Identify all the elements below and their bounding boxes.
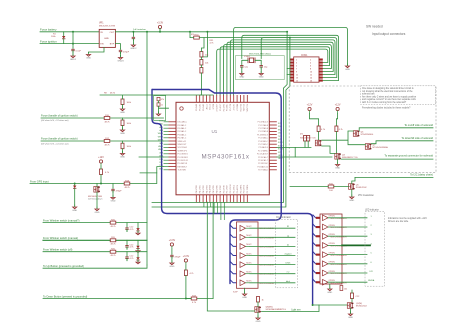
- svg-text:DVcc2: DVcc2: [210, 104, 212, 110]
- svg-text:SI3443BDV T1G: SI3443BDV T1G: [300, 138, 316, 140]
- svg-text:1n: 1n: [161, 104, 163, 106]
- resistor R24 below IC4: [340, 286, 347, 291]
- svg-text:LED indicator: LED indicator: [365, 209, 379, 212]
- svg-text:P2.2/CAOUT: P2.2/CAOUT: [257, 153, 269, 156]
- svg-text:Vcc3: Vcc3: [159, 120, 163, 122]
- wire BYP pin to C3: [115, 44, 120, 57]
- pin pad IC4 input 2: [316, 226, 320, 228]
- capacitor C1 0.1uF input: [71, 48, 81, 54]
- transistor Q6 STS4DNF60L: [353, 131, 374, 137]
- wire buffer IC4b output: [328, 226, 367, 228]
- svg-text:IC6P: IC6P: [233, 292, 238, 294]
- svg-text:GND: GND: [111, 201, 116, 203]
- label To Down Button: [43, 294, 87, 298]
- wire buffer IC3c output: [250, 245, 275, 247]
- wire crystal left leg: [242, 60, 248, 64]
- svg-text:VeREF-/P5: VeREF-/P5: [178, 150, 187, 152]
- label To on/off side of solenoid: [404, 123, 433, 127]
- svg-text:P3.7/URX: P3.7/URX: [247, 184, 249, 193]
- op-amp buffer IC4c: [323, 233, 348, 239]
- ground solenoid drivers: [337, 159, 339, 163]
- wire buffer IC3e output: [250, 264, 275, 266]
- svg-text:SW needed: SW needed: [366, 25, 383, 29]
- svg-text:GND: GND: [256, 321, 261, 323]
- svg-text:XT2OU: XT2OU: [234, 103, 236, 110]
- label right pin nets: [278, 123, 284, 160]
- svg-text:74LVC: 74LVC: [246, 281, 252, 283]
- wire Q2 stubs: [96, 184, 98, 209]
- svg-text:P6.7/A7-C: P6.7/A7-C: [178, 137, 187, 140]
- svg-text:U1: U1: [212, 129, 218, 134]
- junction C2: [132, 31, 134, 33]
- label crystal section: [249, 54, 271, 56]
- svg-text:Light sen: Light sen: [291, 308, 301, 311]
- pin labels U1 right: [257, 121, 269, 172]
- svg-text:P6.4/A4-C: P6.4/A4-C: [178, 127, 187, 130]
- op-amp buffer IC3f: [240, 271, 275, 277]
- note 25V breakdown: [358, 194, 375, 197]
- svg-text:dbck: dbck: [286, 281, 290, 283]
- svg-text:P5.5/SM: P5.5/SM: [223, 104, 225, 112]
- svg-text:10: 10: [310, 71, 312, 73]
- wire I2C net: [355, 176, 433, 178]
- diode D1 reverse protection: [62, 36, 65, 39]
- svg-text:0.1uF: 0.1uF: [76, 50, 82, 52]
- svg-text:P5.3/UCLK1: P5.3/UCLK1: [178, 160, 189, 162]
- svg-text:GND3: GND3: [117, 61, 124, 63]
- svg-text:74LVC2GU04DBVR: 74LVC2GU04DBVR: [330, 236, 348, 238]
- pin pad IC4 input 7: [316, 272, 320, 274]
- wire light sen net: [262, 305, 320, 312]
- svg-text:From Whisker switch (manual?): From Whisker switch (manual?): [43, 218, 80, 222]
- svg-text:TMS/TCK: TMS/TCK: [247, 103, 249, 112]
- wire omni net IR: [275, 227, 295, 229]
- svg-text:P5.4/MCLK: P5.4/MCLK: [178, 163, 188, 165]
- op-amp buffer IC4e: [323, 252, 348, 258]
- wire bus net N3: [261, 38, 337, 78]
- junction R30: [189, 31, 191, 33]
- wire VR1 GND pin down: [89, 47, 105, 53]
- label IC3 name: [233, 292, 238, 294]
- svg-text:GND: GND: [239, 77, 244, 79]
- svg-text:Force ignition: Force ignition: [40, 39, 57, 43]
- svg-text:74LVC2GU04DBVR: 74LVC2GU04DBVR: [330, 255, 348, 257]
- svg-text:P3.0/STE: P3.0/STE: [223, 184, 225, 193]
- svg-text:GND: GND: [327, 292, 332, 294]
- svg-text:16: 16: [310, 80, 312, 82]
- wire chip signal to light transistor: [207, 202, 252, 311]
- svg-text:74LVC2GU04DBVR: 74LVC2GU04DBVR: [330, 218, 348, 220]
- wire +12V branch y37: [199, 37, 290, 39]
- svg-text:+3.3V: +3.3V: [157, 21, 164, 24]
- pin pad IC4 input 5: [316, 254, 320, 256]
- pin labels U1 bottom: [196, 184, 249, 193]
- resistor R12: [104, 138, 110, 147]
- svg-text:BYP: BYP: [110, 44, 115, 46]
- op-amp buffer IC4d: [323, 243, 348, 249]
- svg-text:P1.3/TA2-B: P1.3/TA2-B: [258, 130, 268, 133]
- svg-text:P3.4/UTX: P3.4/UTX: [237, 184, 239, 193]
- svg-text:P5.7/TB: P5.7/TB: [230, 103, 232, 111]
- wire whisker cap stubs 2: [126, 240, 128, 249]
- resistor R17 pullup: [100, 169, 103, 175]
- wire R11 stubs: [122, 118, 124, 129]
- capacitor C5 12pF right: [260, 64, 269, 70]
- svg-text:4: 4: [310, 62, 311, 64]
- svg-text:DVcc/AVcc: DVcc/AVcc: [178, 121, 187, 124]
- svg-text:5: 5: [296, 65, 297, 67]
- wire solenoid output downhill: [371, 141, 433, 144]
- wire down button net: [43, 298, 213, 300]
- svg-text:IRLML2502: IRLML2502: [356, 306, 368, 308]
- wire rail B 12V vertical right: [152, 38, 290, 207]
- resistor R23 Q9 pullup: [351, 293, 354, 299]
- svg-text:P3.2/SOM: P3.2/SOM: [230, 184, 232, 193]
- svg-text:VREF+/XI: VREF+/XI: [178, 141, 187, 143]
- svg-text:P1.4/SMCLK: P1.4/SMCLK: [257, 134, 269, 136]
- pin row U1 right pins: [269, 122, 277, 170]
- wire C2 stubs: [132, 32, 134, 44]
- ground bus N1: [345, 63, 350, 71]
- label whisker 2: [43, 236, 78, 240]
- wire buffer IC4a output: [328, 217, 367, 219]
- wire bus net N5: [227, 42, 333, 95]
- svg-text:GND: GND: [259, 77, 264, 79]
- junction rail B top: [289, 37, 291, 39]
- svg-text:47k: 47k: [300, 134, 303, 136]
- svg-text:+3.3V: +3.3V: [169, 239, 176, 242]
- ground buffer IC3: [244, 288, 246, 293]
- wire C5 down: [260, 67, 262, 73]
- wire bus net N7: [220, 47, 330, 95]
- wire VR1 output 3.3V rail to rail A: [115, 31, 287, 33]
- label LED net 1: [370, 216, 372, 218]
- label To downhill side of solenoid: [401, 136, 433, 140]
- ground C6: [111, 195, 116, 203]
- wire buffer IC3f output: [250, 273, 275, 275]
- wire omni net rsv: [275, 273, 295, 275]
- svg-text:solenoid are.: solenoid are.: [362, 93, 376, 96]
- svg-text:P1.5/TA0-C: P1.5/TA0-C: [258, 137, 268, 140]
- svg-text:SOL2: SOL2: [278, 145, 283, 147]
- wire buffer IC4h output: [328, 281, 367, 283]
- svg-text:P2.3/CA0-T: P2.3/CA0-T: [258, 156, 269, 159]
- svg-text:Force (handle of ignition swit: Force (handle of ignition switch): [41, 137, 78, 141]
- svg-text:not knowing what the electrica: not knowing what the electrical connecti…: [362, 90, 413, 93]
- transistor Q4 SI3443BDV: [315, 140, 321, 146]
- wire whisker cap stubs 3: [126, 252, 128, 261]
- junction +3.3V node: [159, 31, 161, 33]
- power +3.3V cluster2: [183, 255, 190, 265]
- ground Q5: [351, 189, 353, 196]
- junction rail A top: [286, 31, 288, 33]
- resistor R1 label: [51, 34, 57, 39]
- svg-text:13: 13: [296, 77, 298, 79]
- resistor R19 down button: [191, 295, 197, 304]
- svg-text:P5.6/AC: P5.6/AC: [226, 103, 229, 111]
- svg-text:From Whisker switch (manual): From Whisker switch (manual): [43, 236, 78, 240]
- wire C1 stubs: [72, 32, 74, 55]
- svg-text:10k: 10k: [344, 289, 347, 291]
- diode whisker 2: [136, 246, 139, 249]
- ground C4 GND4: [239, 71, 244, 79]
- wire C13 stubs: [171, 249, 173, 262]
- svg-text:P2.1/TAINC: P2.1/TAINC: [258, 149, 269, 152]
- ground C5 GND5: [259, 71, 264, 79]
- diode whisker 3: [136, 257, 139, 260]
- resistor R22 Q8 gate: [257, 297, 260, 303]
- capacitor C3 470pF bypass: [119, 49, 130, 55]
- wire bus net N1: [234, 27, 348, 95]
- frame crystal section box: [236, 56, 285, 80]
- wire handle2 net: [41, 140, 164, 142]
- svg-text:74LVC: 74LVC: [246, 235, 252, 237]
- ground reset block: [156, 111, 160, 115]
- svg-text:L/R: L/R: [369, 271, 373, 273]
- connector CON1 JTAG header: [290, 55, 323, 83]
- wire rail A 3.3V vertical right: [152, 32, 287, 203]
- resistor R18 GPS series: [124, 180, 130, 189]
- wire long 3.3V feed down left: [146, 32, 148, 265]
- pin row U1 top pins: [196, 95, 247, 102]
- svg-text:470pF: 470pF: [116, 190, 123, 192]
- wire solenoid output ground: [341, 158, 433, 160]
- ground buffer IC4: [329, 284, 331, 288]
- resistor R16 divider: [121, 143, 124, 149]
- svg-text:MSP430F161x: MSP430F161x: [202, 154, 250, 161]
- label Force handle input 2: [41, 137, 78, 141]
- op-amp buffer IC4a: [323, 215, 348, 221]
- svg-text:GND: GND: [95, 212, 100, 214]
- ground R16: [120, 151, 125, 159]
- resistor R14 gate pullup: [335, 126, 338, 132]
- pin row U1 bottom pins: [196, 195, 247, 202]
- wire +12V distribution in box: [310, 114, 338, 127]
- junction GPS pullup: [100, 183, 102, 185]
- wire aux net to jog: [140, 172, 157, 174]
- wire buffer IC3d output: [250, 255, 275, 257]
- resistor R11 divider: [121, 120, 124, 126]
- resistor R20 48.7k: [110, 219, 116, 228]
- wire bus top loop: [152, 90, 281, 284]
- svg-text:GND: GND: [348, 317, 353, 319]
- svg-text:6: 6: [310, 65, 311, 67]
- wire bus net N8: [217, 49, 328, 95]
- capacitor C4 12pF left: [240, 64, 249, 70]
- svg-text:GND/A: GND/A: [368, 279, 375, 282]
- svg-text:74LVC2GU04DBVR: 74LVC2GU04DBVR: [330, 227, 348, 229]
- label whisker 1: [43, 218, 80, 222]
- label LED net 4: [370, 243, 372, 245]
- power +12V pullup symbol: [98, 156, 104, 166]
- wire whisker net 1: [43, 222, 147, 224]
- capacitor whisker filter 2: [125, 244, 128, 250]
- junction R21: [185, 298, 187, 300]
- wire C6 stubs: [112, 184, 114, 197]
- ground C1 GND1: [70, 53, 77, 61]
- svg-text:Force (handle of ignition swit: Force (handle of ignition switch): [41, 113, 78, 117]
- wire R16 stubs: [122, 141, 124, 153]
- crystal XTAL1: [244, 55, 255, 63]
- wire Q5 drain to I2C: [352, 177, 355, 183]
- svg-text:AVcc1: AVcc1: [205, 104, 208, 109]
- junction C1: [72, 31, 74, 33]
- wire D2 stubs: [74, 184, 76, 207]
- ground whisker 1: [136, 231, 140, 235]
- wire omni net LED1: [275, 264, 295, 266]
- wire omni net up: [275, 236, 295, 238]
- svg-text:From GPS input: From GPS input: [30, 179, 49, 183]
- wire CON1 left pads to rails: [287, 69, 290, 75]
- svg-text:+12V: +12V: [98, 156, 104, 159]
- svg-text:P3.6/UTX: P3.6/UTX: [244, 184, 246, 193]
- svg-text:STS4DNF60L: STS4DNF60L: [361, 134, 375, 136]
- op-amp buffer array IC4 box: [320, 214, 342, 284]
- wire XIN stub: [241, 56, 243, 59]
- capacitor whisker filter 1: [125, 226, 128, 232]
- svg-text:+12V: +12V: [335, 103, 341, 106]
- transistor Q7 NTJD4105: [365, 144, 388, 150]
- svg-text:XTAL1: XTAL1: [244, 55, 251, 58]
- svg-text:P3.5/URX: P3.5/URX: [240, 184, 242, 193]
- svg-text:P6.5/A5-C: P6.5/A5-C: [178, 130, 187, 133]
- svg-text:P1.7/TA2-C: P1.7/TA2-C: [258, 143, 268, 146]
- label Light sen: [291, 308, 301, 311]
- capacitor C2 1uF output: [132, 36, 135, 42]
- junction divider: [206, 31, 208, 33]
- svg-text:SI3443BDV T1G: SI3443BDV T1G: [342, 157, 358, 159]
- svg-text:P4.5/TB5: P4.5/TB5: [213, 185, 215, 193]
- svg-text:P2.6/ADC12: P2.6/ADC12: [257, 165, 268, 168]
- wire GPS net: [30, 167, 164, 184]
- note solenoid design text block: [362, 87, 417, 110]
- pin pad IC4 input 4: [316, 244, 320, 246]
- power +3.3V symbol main: [157, 21, 164, 31]
- wire buffer IC4f output: [328, 263, 367, 265]
- wire R30 left to battery net: [190, 32, 194, 38]
- svg-text:+3.3V: +3.3V: [183, 255, 190, 258]
- node Force battery label: [40, 28, 57, 32]
- svg-text:74LVC2GU04DBVR: 74LVC2GU04DBVR: [330, 282, 348, 284]
- wire Force ignition net: [40, 43, 99, 45]
- wire buffer IC4g output: [328, 272, 367, 274]
- label left pin nets: [158, 120, 164, 170]
- ground C3 GND3: [117, 55, 124, 63]
- power +3.3V bottom cluster: [169, 239, 176, 249]
- svg-text:RST/NMI-T: RST/NMI-T: [178, 166, 188, 168]
- svg-text:15: 15: [296, 80, 298, 82]
- note SW needed: [366, 25, 383, 29]
- svg-text:14: 14: [310, 77, 312, 79]
- svg-text:GND: GND: [349, 200, 354, 202]
- svg-text:GND1: GND1: [70, 59, 77, 61]
- wire up button net: [43, 265, 147, 268]
- svg-text:P4.0/TB0: P4.0/TB0: [196, 185, 198, 193]
- svg-text:P2.4/CA1-T: P2.4/CA1-T: [258, 159, 269, 162]
- resistor R15 Q5 gate: [328, 183, 334, 192]
- frame LED indicator dashed box: [365, 212, 385, 287]
- svg-text:P5.1/SIMO1: P5.1/SIMO1: [178, 154, 188, 156]
- ground C13: [169, 260, 174, 268]
- svg-text:(0V when hi N, +12 when out): (0V when hi N, +12 when out): [41, 119, 69, 122]
- svg-text:Are there only 2 wires and we: Are there only 2 wires and we have to su…: [362, 95, 417, 98]
- pin pad IC4 input 3: [316, 235, 320, 237]
- svg-text:P2.7/TA0-D: P2.7/TA0-D: [258, 169, 268, 172]
- svg-text:9: 9: [296, 71, 297, 73]
- op-amp buffer IC4b: [323, 224, 348, 230]
- svg-text:Omni indicator: Omni indicator: [276, 216, 291, 219]
- svg-text:LED1: LED1: [285, 263, 291, 265]
- resistor R27 divider b: [307, 136, 310, 142]
- label LED net L/R: [369, 271, 373, 273]
- svg-text:8: 8: [310, 68, 311, 70]
- svg-text:1: 1: [296, 59, 297, 61]
- svg-text:TDO/TDI: TDO/TDI: [240, 104, 242, 112]
- label LED net 6: [370, 262, 372, 264]
- label LED net 5: [370, 253, 372, 255]
- op-amp buffer IC3b: [240, 235, 275, 241]
- svg-text:74LVC2GU04DBVR: 74LVC2GU04DBVR: [330, 273, 348, 275]
- label C2 1uF tantalum: [133, 28, 146, 31]
- pin pad IC4 input 1: [316, 217, 320, 219]
- svg-text:To Up Button (pressed is groun: To Up Button (pressed is grounded): [43, 264, 84, 268]
- resistor R31 label: [210, 40, 215, 45]
- svg-text:Force battery: Force battery: [40, 28, 57, 32]
- pin pad IC4 input 6: [316, 263, 320, 265]
- svg-text:P6.3/A3-C: P6.3/A3-C: [178, 124, 187, 127]
- svg-text:rsv: rsv: [287, 272, 290, 274]
- svg-text:P6.2/A2: P6.2/A2: [202, 104, 205, 111]
- op-amp buffer IC3d: [240, 253, 275, 259]
- label LED net GND/A: [368, 279, 375, 282]
- junction bus end light: [312, 304, 314, 306]
- svg-text:dn: dn: [287, 244, 289, 246]
- voltage regulator VR1 MIC5209-3.3YM: [99, 29, 115, 47]
- op-amp U1 MSP430F161x MCU body: [176, 102, 269, 195]
- svg-text:1uF tantalum: 1uF tantalum: [133, 28, 146, 31]
- resistor R26 divider a: [304, 136, 307, 142]
- svg-text:XOUT/VeR: XOUT/VeR: [178, 147, 188, 149]
- op-amp buffer IC4g: [323, 270, 348, 276]
- op-amp buffer IC3e: [240, 262, 275, 268]
- svg-text:P1.0/TACLK: P1.0/TACLK: [258, 121, 269, 124]
- label Force handle input 1: [41, 113, 78, 117]
- wire U1 right pin wires to solenoid box: [277, 147, 332, 157]
- pin labels U1 top: [195, 103, 249, 112]
- svg-text:470pF: 470pF: [123, 51, 130, 53]
- frame solenoid driver dashed box: [289, 86, 436, 172]
- svg-text:XT2IN: XT2IN: [213, 103, 215, 109]
- svg-text:To downhill side of solenoid: To downhill side of solenoid: [401, 136, 433, 140]
- svg-text:+12V: +12V: [307, 103, 313, 106]
- svg-text:P5.2/SOMI1: P5.2/SOMI1: [178, 157, 188, 159]
- svg-text:XT2INN: XT2INN: [237, 103, 239, 110]
- svg-text:470pF: 470pF: [175, 256, 182, 258]
- pin pad IC4 input 8: [316, 281, 320, 283]
- resistor R22 48.7k: [110, 249, 116, 258]
- label To Up Button: [43, 264, 84, 268]
- svg-text:GND: GND: [72, 210, 77, 212]
- op-amp buffer IC4h: [323, 279, 348, 285]
- svg-text:GND2: GND2: [130, 48, 137, 50]
- ground whisker 3: [136, 260, 140, 264]
- svg-text:OUT: OUT: [110, 32, 115, 34]
- op-amp buffer IC3c: [240, 244, 275, 250]
- svg-text:with 3 or 4 wires coming from: with 3 or 4 wires coming from the soleno…: [362, 101, 407, 104]
- svg-text:P2.5/ROSC: P2.5/ROSC: [258, 163, 269, 165]
- wire whisker net 3: [43, 251, 147, 253]
- svg-text:P6.6/A6-C: P6.6/A6-C: [178, 133, 187, 136]
